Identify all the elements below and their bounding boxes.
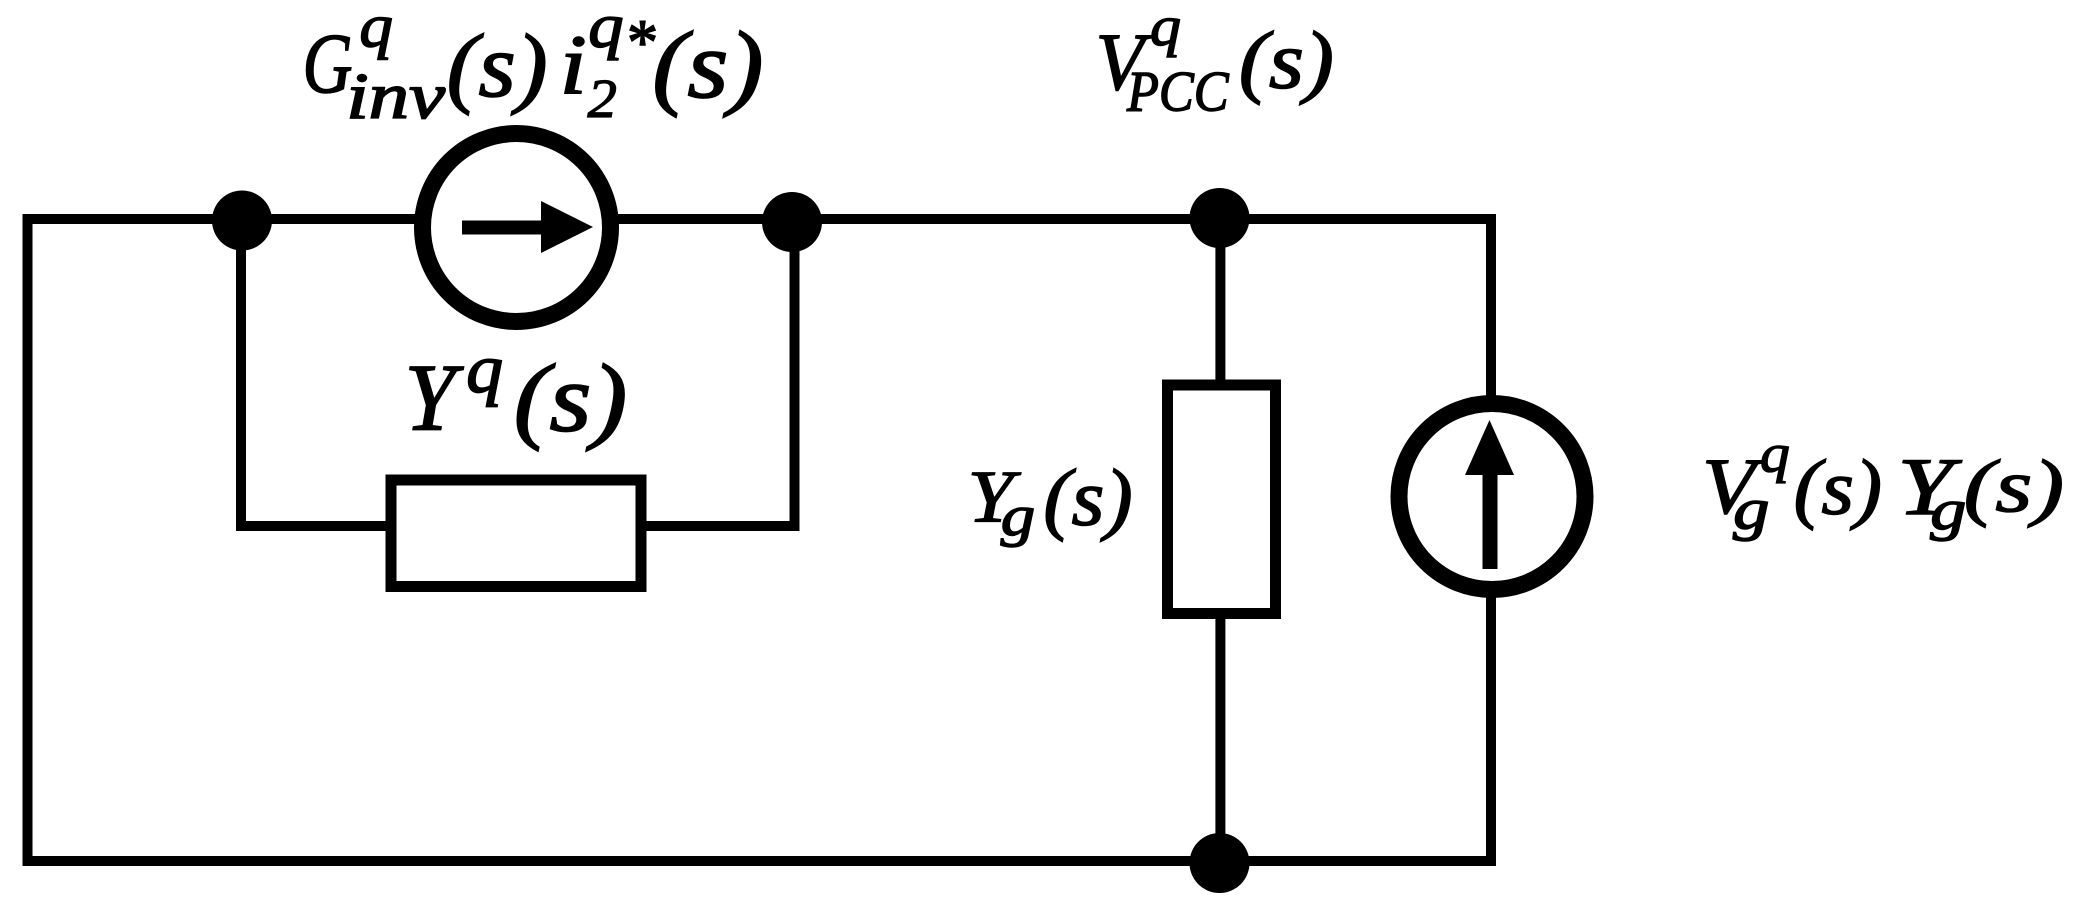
label Yg block value: [968, 454, 1133, 548]
svg-text:G: G: [303, 16, 353, 111]
svg-text:2: 2: [588, 69, 617, 129]
svg-text:(s): (s): [1239, 16, 1334, 106]
svg-text:inv: inv: [346, 59, 445, 132]
node dot3 (PCC): [1190, 188, 1250, 248]
node dot1: [212, 191, 272, 251]
svg-text:Y: Y: [405, 346, 465, 451]
svg-text:q: q: [588, 0, 623, 61]
current source U1 circle: [423, 134, 611, 322]
current source U2 circle: [1399, 404, 1585, 590]
label Ginv(s)i2(s) source value: [303, 0, 764, 132]
admittance block Yq: [391, 480, 641, 587]
svg-text:q: q: [1760, 424, 1790, 484]
svg-text:*: *: [624, 6, 655, 77]
wire dot1 down to Yq branch: [241, 220, 386, 526]
node dot4 (bottom): [1190, 833, 1250, 893]
current source U2 arrow: [1483, 470, 1498, 569]
svg-text:PCC: PCC: [1126, 59, 1229, 122]
svg-text:q: q: [1150, 0, 1181, 57]
svg-text:(s): (s): [652, 11, 763, 117]
svg-text:(s): (s): [1794, 444, 1883, 531]
svg-text:q: q: [359, 0, 393, 60]
svg-text:(s): (s): [514, 346, 628, 452]
current source U1 arrow: [462, 221, 541, 235]
node dot2: [762, 192, 822, 252]
svg-text:(s): (s): [1964, 445, 2065, 528]
label Vg(s)Yg(s) source value: [1702, 424, 2064, 542]
svg-text:q: q: [466, 331, 503, 408]
wire Yq block to dot2: [647, 222, 795, 526]
label VPCC(s) node voltage: [1096, 0, 1334, 123]
svg-text:g: g: [1930, 478, 1966, 542]
wire dot3 down through Yg to bottom: [1215, 218, 1225, 863]
svg-text:g: g: [1733, 477, 1769, 542]
svg-text:(s): (s): [447, 17, 548, 117]
svg-text:(s): (s): [1043, 454, 1132, 542]
wire outer loop: [28, 219, 1492, 861]
label Yq block value: [405, 331, 628, 452]
svg-text:g: g: [1001, 485, 1035, 548]
svg-text:i: i: [560, 17, 587, 111]
admittance block Yg: [1168, 385, 1276, 614]
